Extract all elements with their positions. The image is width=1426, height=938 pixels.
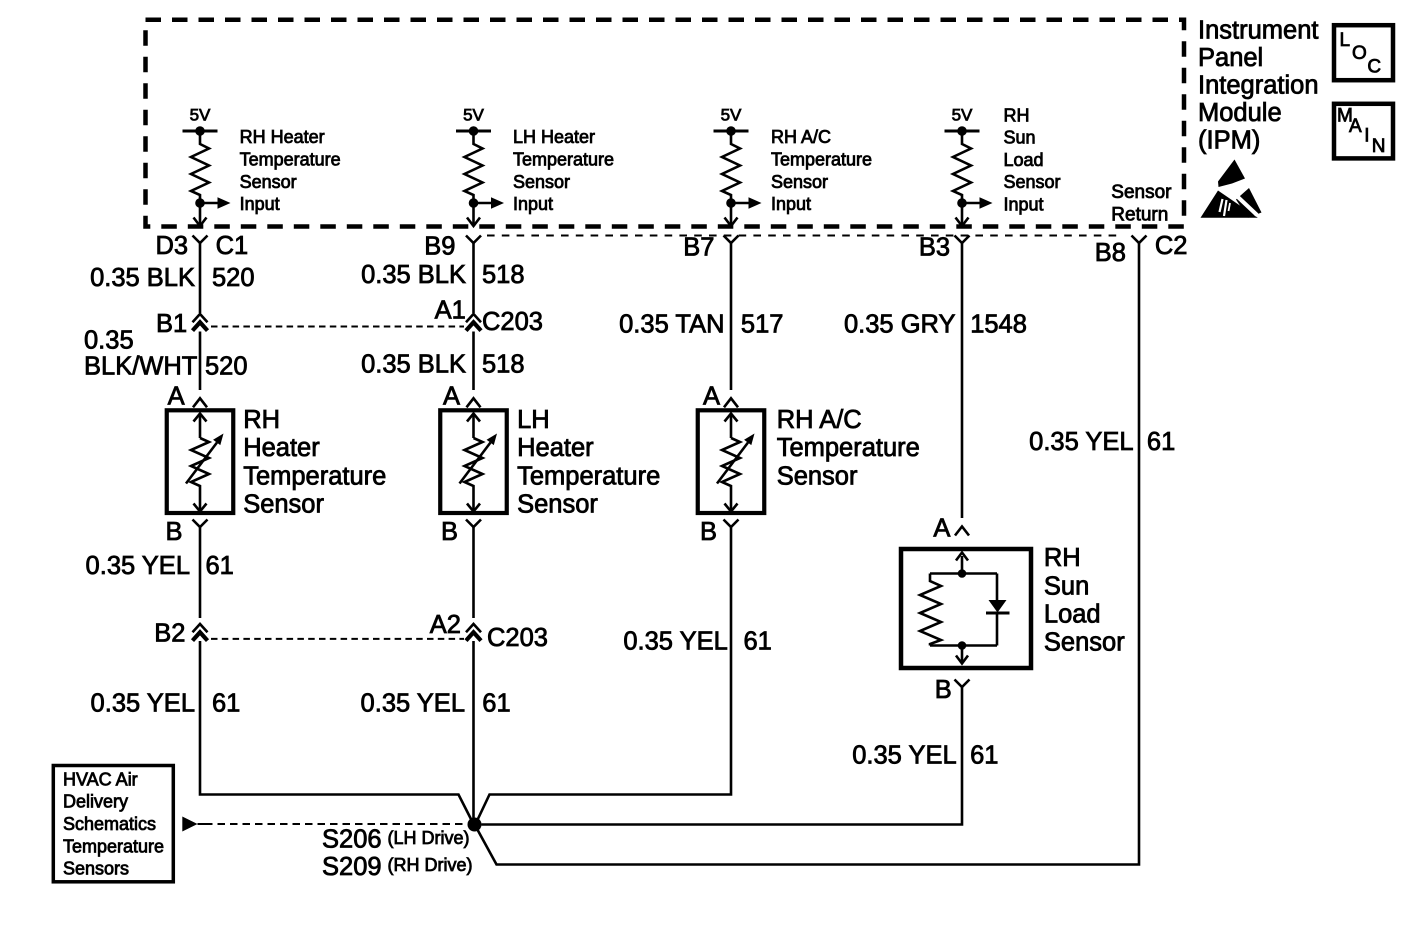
- svg-text:0.35 GRY: 0.35 GRY: [844, 310, 956, 338]
- svg-text:518: 518: [482, 261, 525, 289]
- svg-text:61: 61: [206, 552, 234, 580]
- svg-text:Sun: Sun: [1004, 128, 1036, 148]
- svg-text:A: A: [443, 383, 460, 411]
- svg-text:5V: 5V: [721, 105, 742, 124]
- svg-text:Sensor: Sensor: [1111, 182, 1172, 203]
- svg-text:Sensor: Sensor: [1044, 629, 1125, 657]
- svg-text:C203: C203: [482, 308, 543, 336]
- svg-text:A: A: [1349, 116, 1362, 137]
- svg-text:Heater: Heater: [517, 434, 594, 462]
- svg-text:RH A/C: RH A/C: [771, 127, 831, 147]
- svg-text:B8: B8: [1095, 239, 1126, 267]
- svg-text:B: B: [935, 676, 952, 704]
- svg-text:C1: C1: [216, 232, 249, 260]
- svg-text:Temperature: Temperature: [240, 150, 341, 170]
- svg-text:Panel: Panel: [1198, 44, 1263, 72]
- svg-text:RH Heater: RH Heater: [240, 127, 325, 147]
- svg-text:Sensor: Sensor: [1004, 172, 1061, 192]
- svg-text:0.35 YEL: 0.35 YEL: [1029, 428, 1133, 456]
- svg-text:Input: Input: [513, 194, 553, 214]
- svg-text:1548: 1548: [970, 310, 1027, 338]
- svg-text:Schematics: Schematics: [63, 814, 156, 834]
- svg-text:C203: C203: [487, 624, 548, 652]
- svg-text:Temperature: Temperature: [777, 434, 920, 462]
- svg-text:C2: C2: [1155, 232, 1188, 260]
- svg-text:(LH Drive): (LH Drive): [388, 828, 470, 848]
- svg-text:Input: Input: [771, 194, 811, 214]
- svg-text:Sensor: Sensor: [513, 172, 570, 192]
- svg-text:S209: S209: [322, 853, 382, 881]
- svg-text:L: L: [1340, 30, 1351, 51]
- svg-text:Sensors: Sensors: [63, 859, 129, 879]
- svg-text:Sensor: Sensor: [771, 172, 828, 192]
- svg-text:RH: RH: [1044, 544, 1081, 572]
- svg-text:C: C: [1367, 56, 1381, 77]
- svg-text:Integration: Integration: [1198, 71, 1319, 99]
- svg-text:Input: Input: [1004, 195, 1044, 215]
- svg-text:Load: Load: [1004, 150, 1044, 170]
- svg-text:0.35 YEL: 0.35 YEL: [623, 628, 727, 656]
- svg-text:B: B: [166, 518, 183, 546]
- svg-text:61: 61: [970, 742, 998, 770]
- svg-text:Sun: Sun: [1044, 572, 1089, 600]
- svg-text:61: 61: [212, 690, 240, 718]
- svg-text:Module: Module: [1198, 99, 1282, 127]
- svg-text:Sensor: Sensor: [777, 462, 858, 490]
- svg-text:61: 61: [744, 628, 772, 656]
- svg-text:Delivery: Delivery: [63, 792, 128, 812]
- svg-text:517: 517: [741, 310, 784, 338]
- svg-text:Temperature: Temperature: [517, 462, 660, 490]
- svg-text:Temperature: Temperature: [513, 150, 614, 170]
- svg-text:5V: 5V: [952, 105, 973, 124]
- svg-text:BLK/WHT: BLK/WHT: [84, 353, 197, 381]
- svg-text:0.35: 0.35: [84, 327, 134, 355]
- svg-text:O: O: [1352, 43, 1367, 64]
- svg-text:518: 518: [482, 351, 525, 379]
- svg-text:Return: Return: [1111, 205, 1168, 226]
- svg-text:0.35 BLK: 0.35 BLK: [361, 351, 466, 379]
- svg-text:B9: B9: [424, 232, 455, 260]
- svg-text:A2: A2: [430, 611, 461, 639]
- svg-text:A: A: [703, 383, 720, 411]
- svg-text:Temperature: Temperature: [63, 836, 164, 856]
- svg-text:Temperature: Temperature: [771, 150, 872, 170]
- svg-text:0.35 YEL: 0.35 YEL: [852, 742, 956, 770]
- svg-text:(IPM): (IPM): [1198, 126, 1260, 154]
- svg-text:Heater: Heater: [243, 434, 320, 462]
- svg-text:RH: RH: [1004, 105, 1030, 125]
- svg-text:D3: D3: [156, 232, 189, 260]
- svg-text:0.35 BLK: 0.35 BLK: [90, 264, 195, 292]
- svg-text:RH: RH: [243, 406, 280, 434]
- svg-text:HVAC Air: HVAC Air: [63, 769, 138, 789]
- svg-text:LH Heater: LH Heater: [513, 127, 595, 147]
- svg-text:Load: Load: [1044, 601, 1101, 629]
- svg-text:(RH Drive): (RH Drive): [388, 855, 473, 875]
- svg-text:61: 61: [482, 690, 510, 718]
- svg-text:B3: B3: [919, 234, 950, 262]
- svg-text:Sensor: Sensor: [517, 491, 598, 519]
- svg-text:S206: S206: [322, 826, 382, 854]
- svg-text:Instrument: Instrument: [1198, 16, 1318, 44]
- svg-text:LH: LH: [517, 406, 550, 434]
- svg-text:520: 520: [212, 264, 255, 292]
- svg-text:0.35 YEL: 0.35 YEL: [91, 690, 195, 718]
- svg-text:0.35 BLK: 0.35 BLK: [361, 261, 466, 289]
- svg-text:61: 61: [1147, 428, 1175, 456]
- svg-text:520: 520: [205, 353, 248, 381]
- svg-text:Temperature: Temperature: [243, 462, 386, 490]
- svg-text:B: B: [441, 518, 458, 546]
- svg-text:0.35 YEL: 0.35 YEL: [361, 690, 465, 718]
- svg-text:0.35 YEL: 0.35 YEL: [86, 552, 190, 580]
- svg-text:I: I: [1364, 126, 1369, 147]
- svg-text:RH A/C: RH A/C: [777, 406, 862, 434]
- svg-text:0.35 TAN: 0.35 TAN: [619, 310, 724, 338]
- svg-text:A: A: [933, 515, 950, 543]
- svg-text:N: N: [1372, 136, 1386, 157]
- svg-text:5V: 5V: [190, 105, 211, 124]
- svg-text:5V: 5V: [463, 105, 484, 124]
- svg-text:B1: B1: [156, 310, 187, 338]
- svg-text:Input: Input: [240, 194, 280, 214]
- svg-text:Sensor: Sensor: [240, 172, 297, 192]
- svg-text:B7: B7: [683, 234, 714, 262]
- svg-text:A: A: [168, 383, 185, 411]
- svg-text:A1: A1: [435, 297, 466, 325]
- svg-text:Sensor: Sensor: [243, 491, 324, 519]
- svg-text:B: B: [700, 518, 717, 546]
- svg-text:B2: B2: [154, 620, 185, 648]
